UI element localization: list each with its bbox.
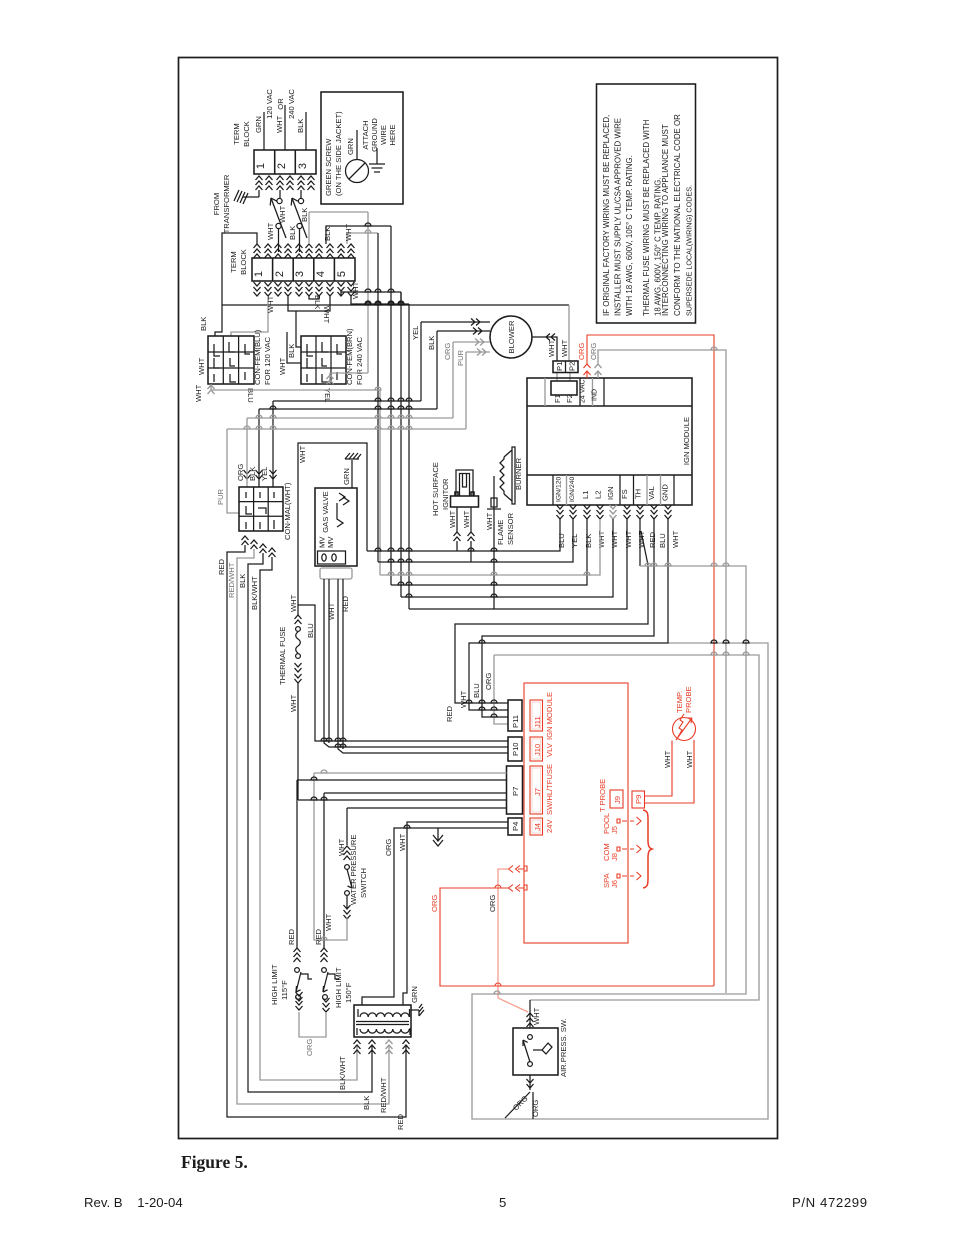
svg-text:FROM: FROM [212, 193, 221, 215]
svg-text:WHT: WHT [448, 510, 457, 528]
svg-text:BLU: BLU [557, 533, 566, 548]
svg-text:WHT: WHT [324, 913, 333, 931]
svg-text:IF ORIGINAL FACTORY WIRING MUS: IF ORIGINAL FACTORY WIRING MUST BE REPLA… [602, 115, 611, 316]
svg-text:WIRE: WIRE [379, 125, 388, 145]
svg-text:WHT: WHT [485, 512, 494, 530]
svg-text:BLK: BLK [296, 119, 305, 133]
wire stubs into CON-FEM(BRN) left [296, 311, 301, 347]
svg-text:P2: P2 [568, 362, 577, 371]
svg-text:WHT: WHT [344, 223, 353, 241]
svg-text:WHT: WHT [685, 750, 694, 768]
svg-text:YEL: YEL [570, 534, 579, 548]
svg-text:RED/WHT: RED/WHT [379, 1077, 388, 1113]
svg-text:F1: F1 [553, 394, 562, 403]
svg-text:(ON THE SIDE JACKET): (ON THE SIDE JACKET) [334, 111, 343, 196]
svg-text:TRANSFORMER: TRANSFORMER [222, 174, 231, 233]
svg-text:2: 2 [276, 163, 288, 169]
svg-text:VLV: VLV [545, 742, 554, 757]
svg-text:WHT: WHT [663, 750, 672, 768]
transformer secondary wires [338, 1040, 410, 1130]
svg-text:SENSOR: SENSOR [506, 512, 515, 545]
svg-text:INTERCONNECTING WIRING TO APPL: INTERCONNECTING WIRING TO APPLIANCE MUST [661, 124, 670, 316]
wire ORG gray to P11 [494, 655, 759, 1000]
svg-text:BLOWER: BLOWER [507, 320, 516, 353]
wire RED diagonal from TH [641, 531, 648, 565]
svg-text:IGNITOR: IGNITOR [441, 478, 450, 510]
svg-text:GND: GND [661, 484, 670, 501]
wire WHT pair from gas valve to P10 [324, 579, 508, 747]
svg-text:ORG: ORG [488, 895, 497, 912]
svg-text:BLK: BLK [313, 295, 322, 309]
wire WHT gray TB2 pin2b down to CON-FEM(BLU) [231, 296, 268, 336]
svg-text:J10: J10 [533, 744, 542, 756]
thermal fuse [278, 594, 302, 800]
svg-text:BLK: BLK [300, 208, 309, 222]
supply wires 120/240 VAC [254, 89, 306, 150]
svg-text:GRN: GRN [342, 468, 351, 485]
svg-text:BLK: BLK [248, 467, 257, 481]
svg-text:SW/HL/TFUSE: SW/HL/TFUSE [545, 764, 554, 815]
wire gray from TB2 area to center vertical v368 [309, 211, 368, 213]
temp probe [645, 686, 696, 803]
svg-text:BLK: BLK [427, 336, 436, 350]
connector P9 [632, 791, 645, 808]
wire YEL bundle line [273, 400, 421, 402]
wire BLK left loop from TB2 pin1 [215, 233, 257, 336]
svg-text:BLK: BLK [362, 1096, 371, 1110]
TB2 top pins [254, 244, 261, 258]
svg-text:GRN: GRN [254, 116, 263, 133]
svg-text:RED: RED [396, 1113, 405, 1130]
svg-text:BLU: BLU [306, 623, 315, 638]
disconnect switch WHT [266, 190, 287, 252]
connector P11 [508, 700, 522, 731]
svg-text:WHT: WHT [266, 295, 275, 313]
svg-text:P7: P7 [511, 787, 520, 796]
svg-text:WHT: WHT [351, 281, 360, 299]
svg-text:BURNER: BURNER [514, 457, 523, 490]
svg-text:5: 5 [499, 1195, 506, 1210]
svg-text:J5: J5 [610, 826, 619, 834]
connector CON-FEM(BRN) [278, 328, 364, 402]
high limit 150F [314, 793, 353, 1012]
connector J10 [530, 737, 543, 761]
svg-text:BLK: BLK [288, 226, 297, 240]
wire WHT gray from TB2 pin5a up right to v378 [347, 233, 378, 244]
svg-text:HIGH LIMIT: HIGH LIMIT [334, 967, 343, 1008]
svg-text:RED: RED [445, 705, 454, 722]
svg-text:WHT: WHT [278, 357, 287, 375]
svg-text:IGN/120: IGN/120 [556, 476, 563, 502]
svg-text:WHT: WHT [547, 339, 556, 357]
center long verticals [377, 233, 379, 562]
svg-text:IGN MODULE: IGN MODULE [682, 417, 691, 465]
gray lead top bus to P2 [568, 305, 570, 361]
water pressure switch [314, 773, 368, 940]
svg-text:P/N 472299: P/N 472299 [792, 1195, 868, 1210]
svg-text:WHT: WHT [610, 530, 619, 548]
diagram border frame [179, 58, 778, 1139]
svg-text:ORG: ORG [384, 839, 393, 856]
wire BLU thermal-fuse top to P10 [298, 605, 508, 741]
svg-text:Figure 5.: Figure 5. [181, 1152, 248, 1172]
connector J9 T-PROBE [610, 790, 623, 808]
svg-text:Rev. B 1-20-04: Rev. B 1-20-04 [84, 1195, 183, 1210]
svg-text:P9: P9 [634, 795, 643, 804]
cascade wires from module pins to left [367, 519, 627, 609]
svg-text:WHT: WHT [266, 222, 275, 240]
svg-text:TH: TH [634, 489, 643, 499]
svg-text:WHT: WHT [624, 530, 633, 548]
svg-text:OR: OR [276, 98, 285, 110]
svg-text:PUR: PUR [456, 349, 465, 366]
svg-text:IND: IND [592, 389, 599, 401]
svg-text:ORG: ORG [443, 343, 452, 360]
svg-text:WHT: WHT [197, 357, 206, 375]
svg-text:BLK: BLK [199, 317, 208, 331]
svg-text:24V: 24V [545, 819, 554, 833]
wire ORG red loop left [440, 888, 714, 986]
svg-text:1: 1 [255, 163, 267, 169]
svg-text:J4: J4 [533, 823, 542, 831]
svg-text:INSTALLER MUST SUPPLY UL/CSA A: INSTALLER MUST SUPPLY UL/CSA APPROVED WI… [614, 118, 623, 316]
connector J4 [530, 818, 543, 835]
svg-text:WHT: WHT [532, 1007, 541, 1025]
svg-text:VAL: VAL [647, 486, 656, 500]
svg-text:WHT: WHT [289, 594, 298, 612]
svg-text:GAS VALVE: GAS VALVE [321, 491, 330, 533]
connector P1 P2 [553, 361, 578, 381]
svg-text:WITH 18 AWG, 600V, 105° C TEMP: WITH 18 AWG, 600V, 105° C TEMP. RATING. [625, 155, 634, 316]
svg-text:ORG: ORG [511, 1094, 530, 1113]
svg-text:TERM: TERM [232, 123, 241, 145]
svg-text:WHT: WHT [327, 602, 336, 620]
connector CON-MAL(WHT) [239, 482, 292, 540]
svg-text:24 VAC: 24 VAC [580, 379, 587, 403]
svg-text:BLK/WHT: BLK/WHT [250, 576, 259, 610]
svg-text:P4: P4 [511, 822, 520, 831]
svg-text:WHT: WHT [194, 384, 203, 402]
fuse F1 F2 [551, 381, 577, 395]
blower WHT lead to P1 [532, 337, 557, 361]
red box left pins with chevrons [509, 866, 528, 892]
svg-text:ATTACH: ATTACH [361, 120, 370, 149]
POOL J5 / COM J8 / SPA J6 [617, 810, 652, 888]
svg-text:3: 3 [294, 271, 306, 277]
connector J11 [530, 700, 543, 731]
wire gray ORG IND right loop [598, 350, 726, 993]
svg-text:F2: F2 [565, 394, 574, 403]
CON-MAL bottom pin wires [242, 536, 249, 545]
svg-text:ORG: ORG [305, 1039, 314, 1056]
svg-text:IGN/240: IGN/240 [569, 476, 576, 502]
svg-text:MV: MV [326, 536, 335, 548]
burner [500, 447, 523, 504]
svg-text:GRN: GRN [346, 138, 355, 155]
blower coil leads [421, 319, 490, 356]
svg-text:J6: J6 [610, 880, 619, 888]
wire jumper WHT TB2 2a-4b [288, 296, 330, 311]
wire ORG bundle line gray [247, 417, 453, 419]
wire WHT from GND [469, 519, 668, 710]
svg-text:WHT: WHT [398, 833, 407, 851]
svg-text:FOR 240 VAC: FOR 240 VAC [355, 337, 364, 385]
svg-text:FOR 120 VAC: FOR 120 VAC [263, 337, 272, 385]
wire ORG salmon from box to air press sw [498, 869, 528, 1012]
svg-text:J7: J7 [533, 788, 542, 796]
wire TH WHT to right gray loop [639, 519, 641, 566]
high limit 115F [270, 780, 312, 1010]
svg-text:BLOCK: BLOCK [242, 121, 251, 147]
connector P4 [508, 818, 522, 835]
svg-text:WHT: WHT [275, 115, 284, 133]
svg-text:YEL: YEL [411, 326, 420, 340]
bottom strip dividers [552, 475, 554, 505]
svg-text:FS: FS [620, 489, 629, 499]
term block TB2 (5 cells) [229, 249, 355, 281]
svg-text:HOT SURFACE: HOT SURFACE [431, 462, 440, 516]
wires into P4 [403, 822, 508, 1005]
svg-text:120 VAC: 120 VAC [265, 89, 274, 119]
svg-text:WHT: WHT [462, 510, 471, 528]
svg-text:WHT: WHT [597, 530, 606, 548]
svg-text:SUPERSEDE LOCAL(WIRING) CODES.: SUPERSEDE LOCAL(WIRING) CODES. [685, 185, 694, 316]
svg-text:ORG: ORG [531, 1100, 540, 1117]
svg-text:WHT: WHT [289, 694, 298, 712]
connector P10 [508, 737, 522, 761]
svg-text:1: 1 [253, 271, 265, 277]
svg-text:TERM: TERM [229, 251, 238, 273]
wire red ORG 24VAC right loop [587, 335, 714, 986]
wire ORG jumper under high limits [299, 1012, 326, 1037]
svg-text:THERMAL FUSE: THERMAL FUSE [278, 627, 287, 685]
wire BLU from VAL [482, 519, 654, 717]
svg-text:J11: J11 [533, 716, 542, 728]
svg-text:WHT: WHT [671, 530, 680, 548]
svg-text:115°F: 115°F [280, 980, 289, 1000]
svg-text:RED: RED [648, 531, 657, 548]
svg-text:RED/WHT: RED/WHT [227, 562, 236, 598]
wire RED pair from gas valve to P10 [338, 579, 508, 753]
svg-text:PROBE: PROBE [684, 686, 693, 713]
svg-text:BLK/WHT: BLK/WHT [338, 1056, 347, 1090]
disconnect switch BLK [288, 190, 309, 252]
svg-text:BLU: BLU [658, 533, 667, 548]
gas valve box [315, 488, 357, 566]
svg-text:4: 4 [315, 271, 327, 277]
svg-text:CONFORM TO THE NATIONAL ELECTR: CONFORM TO THE NATIONAL ELECTRICAL CODE … [673, 114, 682, 316]
svg-text:ORG: ORG [484, 673, 493, 690]
svg-text:240 VAC: 240 VAC [287, 89, 296, 119]
connector J7 [530, 766, 543, 814]
wire gray YEL from CON-FEM(BRN) bottom [330, 373, 368, 384]
wires into P7 [314, 772, 507, 774]
svg-text:ORG: ORG [236, 464, 245, 481]
TB1 lower pins with arrows [256, 176, 263, 190]
svg-text:2: 2 [274, 271, 286, 277]
svg-text:RED: RED [314, 928, 323, 945]
svg-text:TEMP.: TEMP. [675, 691, 684, 713]
svg-text:GREEN SCREW: GREEN SCREW [324, 138, 333, 196]
wire hop bumps [244, 223, 749, 994]
svg-text:L2: L2 [594, 491, 603, 499]
wire stub TB2 pin5a2 to v409 [341, 292, 401, 296]
svg-text:WHT: WHT [298, 445, 307, 463]
svg-text:T PROBE: T PROBE [598, 779, 607, 812]
svg-text:PUR: PUR [216, 488, 225, 505]
svg-text:150°F: 150°F [344, 982, 353, 1003]
svg-text:HERE: HERE [388, 124, 397, 145]
svg-text:RED: RED [341, 595, 350, 612]
svg-text:J8: J8 [610, 853, 619, 861]
module bottom pin wires [557, 505, 681, 548]
connector P7 [507, 766, 523, 814]
svg-text:GRN: GRN [410, 986, 419, 1003]
blower motor [490, 316, 532, 358]
wire gray WHT from CON-FEM(BLU) bottom [211, 384, 380, 390]
wire BLK bundle line [259, 408, 437, 410]
svg-text:AIR.PRESS. SW.: AIR.PRESS. SW. [559, 1018, 568, 1077]
svg-text:RED: RED [287, 928, 296, 945]
svg-text:BLK: BLK [323, 227, 332, 241]
svg-text:CON-FEM(BRN): CON-FEM(BRN) [345, 328, 354, 385]
wire WHT TB2 pin5b right to v401 [351, 292, 401, 304]
svg-text:FLAME: FLAME [496, 520, 505, 545]
svg-text:WHT: WHT [322, 306, 331, 324]
svg-text:BLK: BLK [584, 534, 593, 548]
green screw ground box [321, 92, 403, 204]
svg-text:BLU: BLU [472, 683, 481, 698]
svg-text:WHT: WHT [459, 690, 468, 708]
top strip dividers [544, 378, 546, 406]
svg-text:ORG: ORG [430, 895, 439, 912]
gas valve connector bar [320, 568, 352, 579]
svg-text:SWITCH: SWITCH [359, 868, 368, 898]
svg-text:ORG: ORG [589, 343, 598, 360]
wire jumper BLK TB2 3b-4a [309, 296, 319, 299]
svg-text:BLK: BLK [287, 344, 296, 358]
wire PUR bundle line gray [227, 428, 466, 430]
svg-text:YEL: YEL [260, 467, 269, 481]
svg-text:CON-MAL(WHT): CON-MAL(WHT) [283, 482, 292, 540]
module top pins: 24VAC red, IND gray [584, 364, 591, 378]
svg-text:THERMAL FUSE WIRING MUST BE RE: THERMAL FUSE WIRING MUST BE REPLACED WIT… [642, 119, 651, 316]
svg-text:BLK: BLK [238, 574, 247, 588]
svg-text:IGN MODULE: IGN MODULE [545, 692, 554, 740]
svg-text:WATER PRESSURE: WATER PRESSURE [349, 835, 358, 905]
svg-text:5: 5 [336, 271, 348, 277]
svg-text:HIGH LIMIT: HIGH LIMIT [270, 964, 279, 1005]
ground GRN at gas valve [351, 460, 353, 488]
svg-text:IGN: IGN [606, 486, 615, 500]
svg-text:P11: P11 [511, 715, 520, 728]
svg-text:P1: P1 [555, 362, 564, 371]
ground symbol [376, 148, 378, 164]
wire WHT feed to gas valve loop [298, 443, 367, 605]
svg-text:3: 3 [297, 163, 309, 169]
svg-text:RED: RED [217, 558, 226, 575]
flame sensor [485, 476, 515, 609]
TB2 bottom pins [254, 282, 261, 296]
svg-text:CON-FEM(BLU): CON-FEM(BLU) [253, 329, 262, 385]
svg-text:GROUND: GROUND [370, 118, 379, 152]
svg-text:J9: J9 [613, 796, 622, 804]
wire top black bus to blower P1 [222, 304, 569, 306]
svg-text:L1: L1 [581, 491, 590, 499]
svg-text:BLOCK: BLOCK [239, 249, 248, 275]
wire BLK from TB2 pin4b up right to v391 [326, 226, 391, 244]
wire from transformer to TB1 pin 1 [212, 174, 259, 233]
svg-text:ORG: ORG [577, 343, 586, 360]
term block TB1 (3 cells) [232, 121, 316, 174]
svg-text:WHT: WHT [560, 339, 569, 357]
svg-text:P10: P10 [511, 742, 520, 756]
